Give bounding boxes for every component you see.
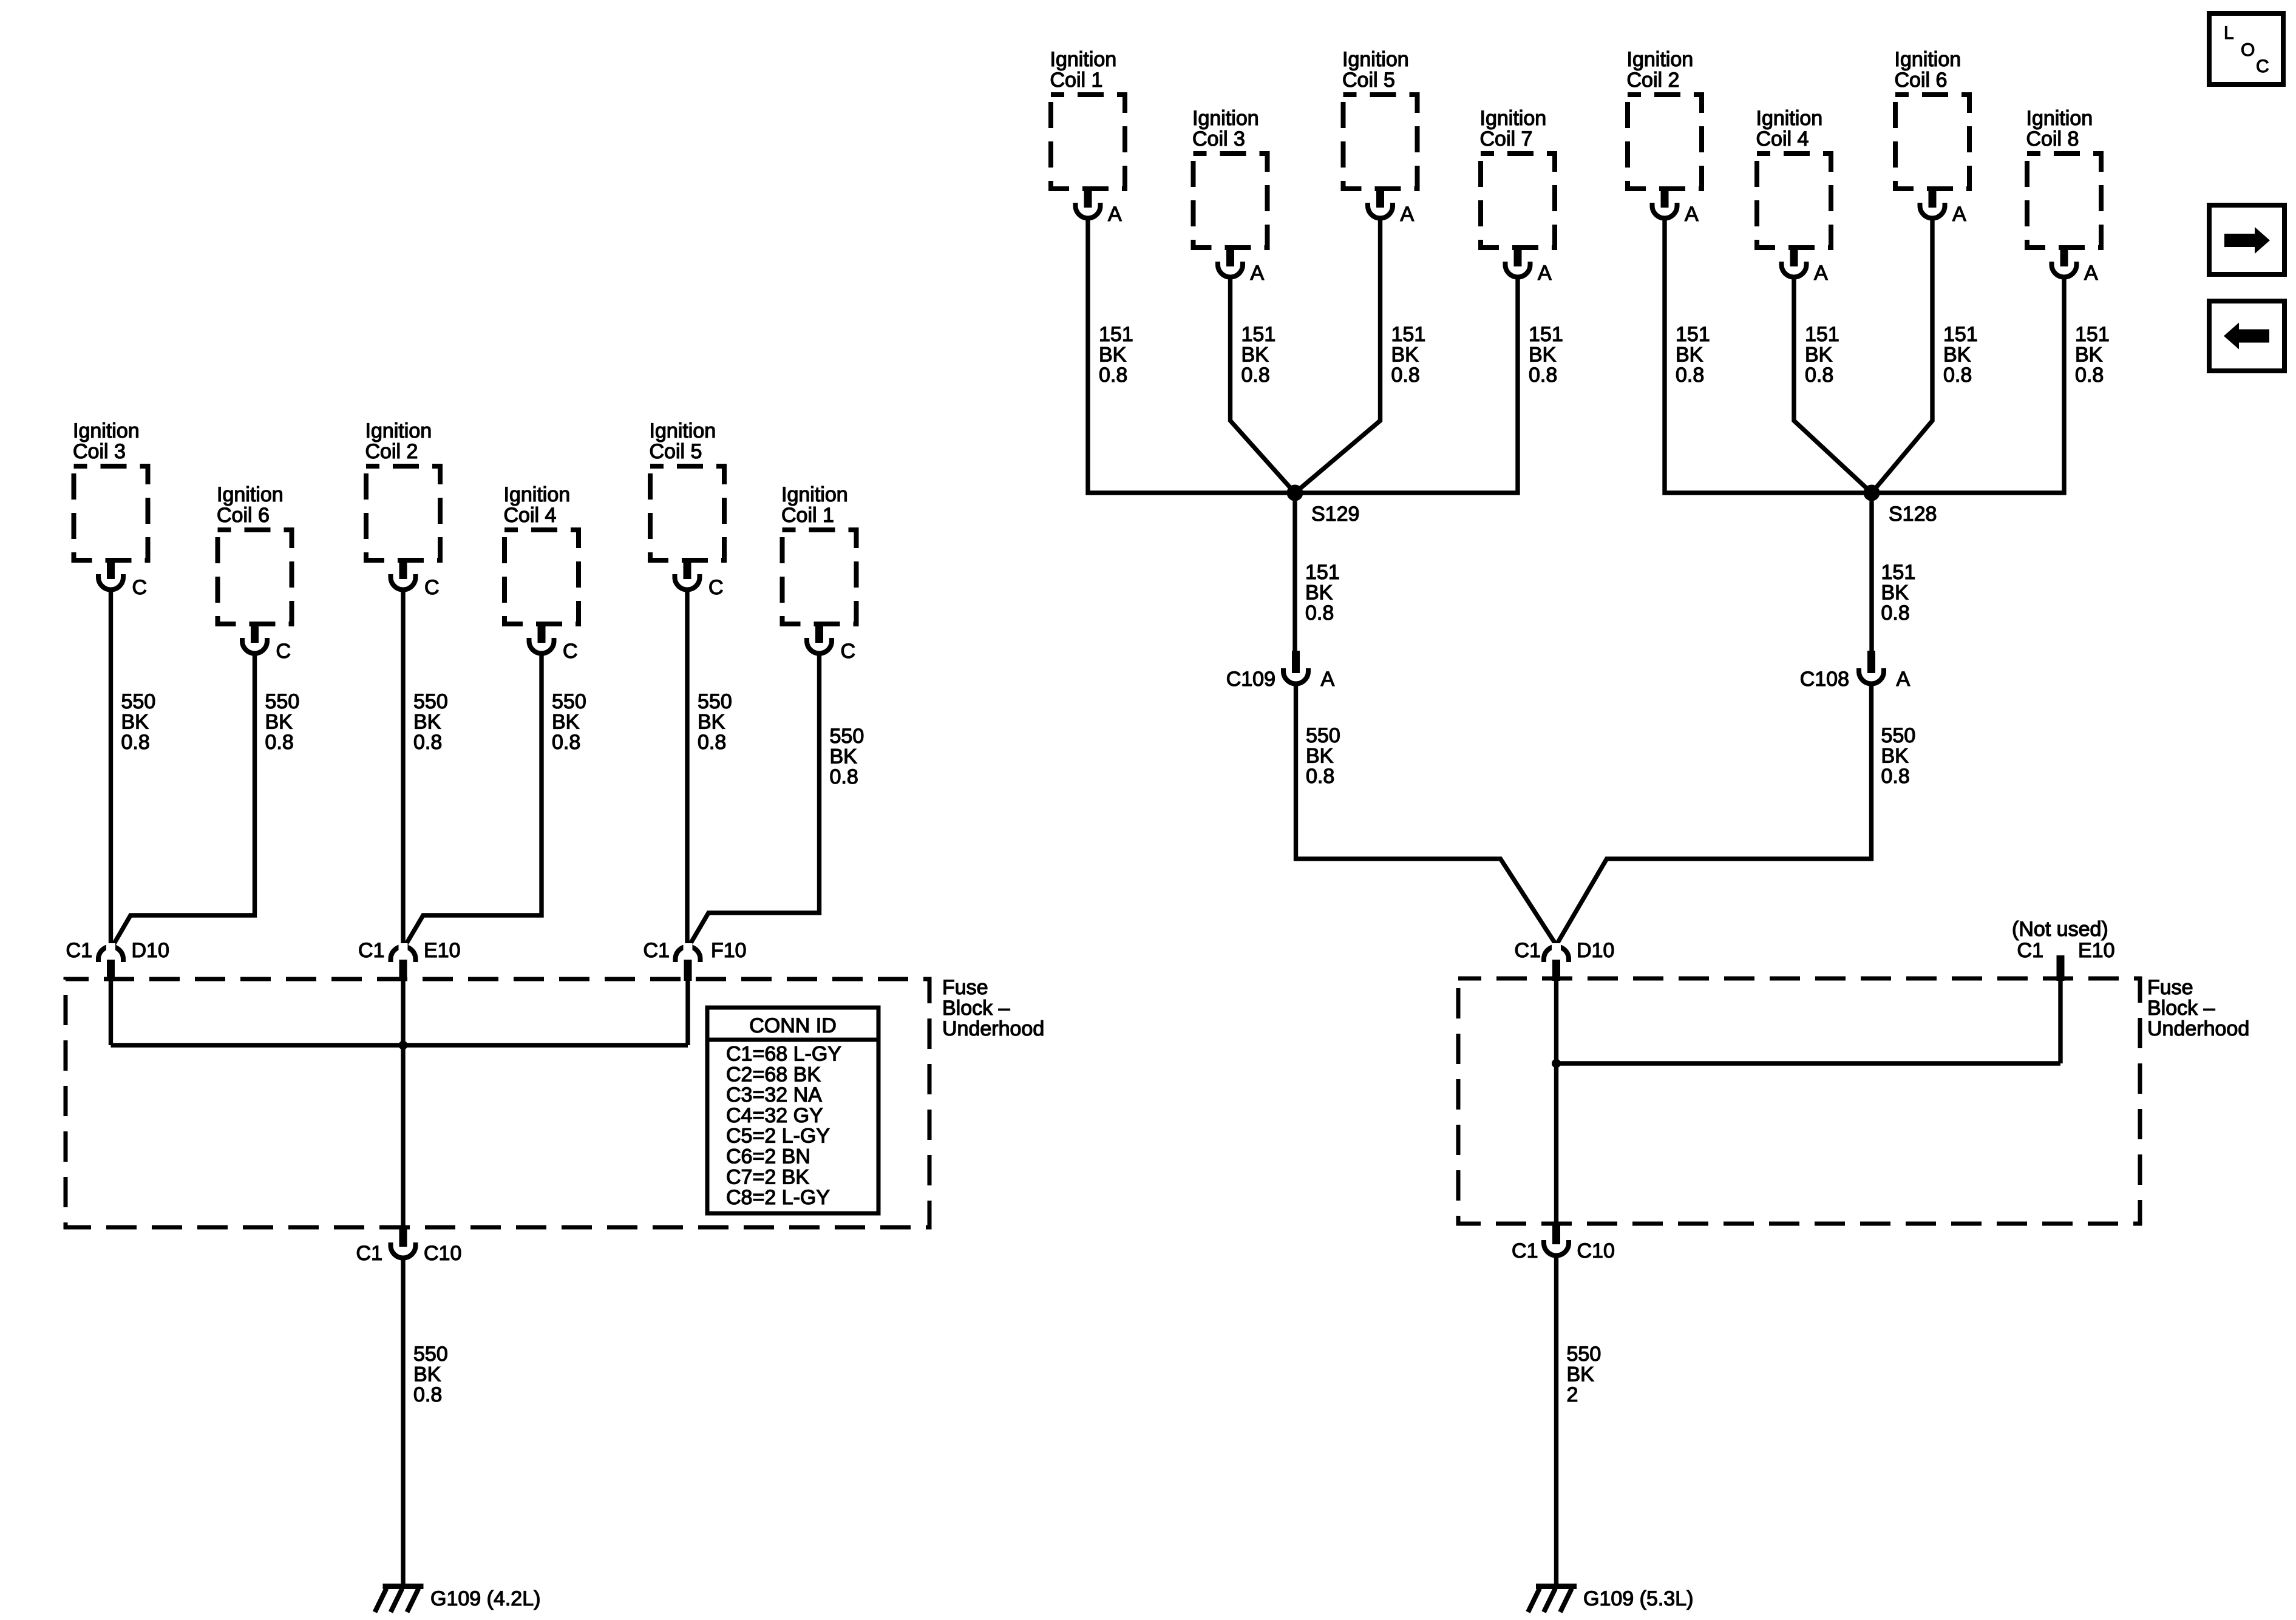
wire C10 to G109 (550 BK, 5.3L) [1554,1256,1558,1584]
svg-text:Ignition: Ignition [650,419,716,442]
ignition coil 3 (right 5.3L) [1194,154,1268,248]
svg-text:C: C [424,576,440,599]
svg-text:C1: C1 [2017,939,2043,962]
wire coil 2 to S128 (151 BK) [1665,219,1872,493]
svg-text:0.8: 0.8 [1881,602,1910,625]
svg-text:550: 550 [552,690,586,713]
connector terminal A of coil 3 (right) [1218,262,1243,277]
svg-text:A: A [1685,203,1699,226]
svg-text:F10: F10 [711,939,747,962]
internal bus wire (left fuse block) [111,1043,688,1047]
wire S128 to C108 (151 BK) [1869,501,1873,651]
fuse block - underhood (right 5.3L) [1458,978,2140,1224]
connector C1 pin F10 (left fuse block) [676,943,701,962]
pin F10 [684,960,692,981]
svg-text:151: 151 [1241,323,1276,346]
value label 151 BK 0.8 (coil 4 wire right) [1805,323,1839,387]
value label 550 BK 0.8 (coil 1 wire) [830,725,864,788]
connector terminal C of coil 2 [391,574,416,590]
pin coil 4 terminal A [1790,245,1798,266]
ignition coil 5 (left 4.2L) [650,466,724,560]
svg-text:550: 550 [413,690,448,713]
connector terminal A of coil 7 (right) [1506,262,1530,277]
svg-text:Underhood: Underhood [2147,1017,2249,1040]
pin coil 1 terminal A [1084,186,1092,208]
internal bus wire (right fuse block) [1557,1061,2061,1065]
svg-text:S129: S129 [1311,503,1359,526]
svg-text:Ignition: Ignition [365,419,432,442]
svg-text:0.8: 0.8 [1943,364,1972,387]
value label 550 BK 0.8 (coil 3 wire) [121,690,156,754]
wire coil 4 to E10 (550 BK) [406,654,542,946]
svg-text:550: 550 [830,725,864,748]
ignition coil 1 (left 4.2L) [783,530,857,624]
svg-text:C1: C1 [66,939,92,962]
pin C10 (right fuse block) [1552,1224,1560,1244]
ignition coil 4 (right 5.3L) [1757,154,1831,248]
svg-text:D10: D10 [1577,939,1614,962]
svg-text:Coil 7: Coil 7 [1480,127,1533,151]
label Ignition Coil 1 (left) [781,483,848,527]
svg-text:C3=32 NA: C3=32 NA [726,1083,822,1107]
wire D10 right down to C10 [1554,981,1558,1224]
wire coil 1 to F10 (550 BK) [690,654,820,945]
svg-text:G109 (4.2L): G109 (4.2L) [430,1587,540,1610]
svg-text:550: 550 [698,690,732,713]
svg-text:Coil 1: Coil 1 [1050,69,1103,92]
ignition coil 2 (right 5.3L) [1628,95,1702,189]
value label 151 BK 0.8 (S129-C109) [1305,561,1340,625]
svg-text:BK: BK [1567,1363,1595,1386]
value label 550 BK 2 (ground wire right) [1567,1343,1601,1406]
connector terminal C of coil 3 [98,574,123,590]
svg-text:Ignition: Ignition [1627,48,1694,71]
svg-text:0.8: 0.8 [698,731,726,754]
ignition coil 8 (right 5.3L) [2027,154,2101,248]
connector C1 pin D10 (left fuse block) [98,943,123,962]
LOC reference box [2209,13,2283,84]
svg-text:BK: BK [1391,344,1419,367]
svg-text:550: 550 [265,690,300,713]
pin A of C109 [1292,651,1300,673]
connector terminal A of coil 6 (right) [1920,203,1945,219]
svg-text:Block –: Block – [2147,997,2215,1020]
svg-text:BK: BK [413,711,441,734]
svg-text:BK: BK [552,711,580,734]
svg-text:Ignition: Ignition [1192,107,1259,130]
svg-text:A: A [1814,262,1828,285]
pin coil 5 terminal C [684,558,691,579]
svg-text:Coil 5: Coil 5 [650,440,702,463]
svg-text:BK: BK [1305,581,1333,605]
svg-text:Ignition: Ignition [1895,48,1961,71]
svg-text:Ignition: Ignition [504,483,571,506]
label Ignition Coil 5 (right) [1342,48,1409,92]
svg-text:BK: BK [830,745,858,768]
svg-text:Coil 4: Coil 4 [504,504,557,527]
wire S129 to C109 (151 BK) [1292,501,1297,651]
ignition coil 1 (right 5.3L) [1051,95,1125,189]
svg-text:Coil 4: Coil 4 [1756,127,1809,151]
label Ignition Coil 1 (right) [1050,48,1117,92]
wire coil 6 to S128 (151 BK) [1872,219,1932,493]
ignition coil 3 (left 4.2L) [74,466,148,560]
pin coil 6 terminal C [251,622,259,643]
svg-text:E10: E10 [424,939,461,962]
connector terminal C of coil 6 [242,638,267,653]
svg-text:0.8: 0.8 [552,731,580,754]
svg-text:Coil 5: Coil 5 [1342,69,1395,92]
label Ignition Coil 3 (right) [1192,107,1259,151]
svg-text:Underhood: Underhood [942,1017,1044,1040]
ignition coil 2 (left 4.2L) [366,466,440,560]
svg-text:Ignition: Ignition [1342,48,1409,71]
svg-text:BK: BK [265,711,293,734]
inline connector C108 [1859,668,1884,684]
value label 151 BK 0.8 (coil 2 wire right) [1676,323,1710,387]
svg-text:BK: BK [1306,745,1334,768]
svg-text:0.8: 0.8 [1305,602,1334,625]
connector C1 pin C10 (right) [1544,1240,1569,1256]
wire C109 to D10 right (550 BK) [1296,684,1557,946]
pin coil 3 terminal C [107,558,115,579]
ignition coil 6 (left 4.2L) [218,530,292,624]
svg-text:0.8: 0.8 [265,731,294,754]
connector terminal C of coil 1 [807,638,832,653]
pin D10 [107,960,115,981]
connector terminal A of coil 2 (right) [1652,203,1677,219]
label Fuse Block - Underhood (right) [2147,976,2249,1040]
pin E10 right (not used) [2057,955,2065,981]
ignition coil 6 (right 5.3L) [1895,95,1969,189]
value label 550 BK 0.8 (coil 6 wire) [265,690,300,754]
svg-text:Ignition: Ignition [217,483,284,506]
pin coil 8 terminal A [2060,245,2068,266]
wire coil 3 to S129 (151 BK) [1231,277,1296,493]
svg-text:C2=68 BK: C2=68 BK [726,1063,821,1086]
wire coil 3 to D10 (550 BK) [109,590,113,948]
svg-text:A: A [1538,262,1552,285]
label Ignition Coil 5 (left) [650,419,716,463]
pin coil 1 terminal C [815,622,823,643]
svg-text:C: C [708,576,724,599]
svg-text:A: A [1321,668,1335,691]
svg-text:0.8: 0.8 [1099,364,1127,387]
connector terminal A of coil 4 (right) [1782,262,1807,277]
label Ignition Coil 2 (left) [365,419,432,463]
wire C10 to G109 (550 BK, 4.2L) [401,1258,405,1584]
svg-text:BK: BK [2075,344,2103,367]
connector C1 pin C10 (left) [391,1242,416,1258]
svg-text:151: 151 [2075,323,2110,346]
back arrow box [2209,301,2284,371]
svg-text:A: A [1251,262,1265,285]
value label 550 BK 0.8 (ground wire left) [413,1343,448,1406]
label Fuse Block - Underhood (left) [942,976,1044,1040]
wire coil 5 to S129 (151 BK) [1295,219,1381,493]
svg-text:151: 151 [1099,323,1133,346]
label Ignition Coil 4 (left) [504,483,571,527]
connector terminal A of coil 8 (right) [2052,262,2077,277]
svg-text:A: A [2084,262,2098,285]
svg-text:C109: C109 [1226,668,1275,691]
svg-text:0.8: 0.8 [2075,364,2104,387]
svg-text:BK: BK [698,711,725,734]
label Ignition Coil 4 (right) [1756,107,1823,151]
svg-text:C7=2 BK: C7=2 BK [726,1165,809,1188]
label Ignition Coil 6 (left) [217,483,284,527]
pin coil 4 terminal C [538,622,546,643]
svg-text:0.8: 0.8 [413,731,442,754]
svg-text:C1: C1 [1515,939,1541,962]
svg-text:C: C [132,576,148,599]
svg-text:CONN ID: CONN ID [749,1014,837,1037]
pin A of C108 [1867,651,1875,673]
svg-text:A: A [1108,203,1122,226]
label Ignition Coil 7 (right) [1480,107,1547,151]
svg-text:BK: BK [413,1363,441,1386]
pin E10 [399,960,407,981]
svg-text:0.8: 0.8 [1676,364,1704,387]
svg-text:Fuse: Fuse [2147,976,2193,999]
value label 151 BK 0.8 (coil 6 wire right) [1943,323,1978,387]
pin coil 7 terminal A [1514,245,1522,266]
value label 550 BK 0.8 (C109-D10) [1306,724,1340,788]
svg-text:Coil 1: Coil 1 [781,504,834,527]
wire coil 2 to E10 (550 BK) [401,590,405,948]
pin D10 right [1552,960,1560,981]
svg-text:Coil 3: Coil 3 [1192,127,1245,151]
svg-text:Coil 3: Coil 3 [73,440,126,463]
connector terminal C of coil 4 [529,638,554,653]
connector terminal C of coil 5 [675,574,700,590]
svg-text:Ignition: Ignition [781,483,848,506]
svg-text:BK: BK [1805,344,1833,367]
svg-text:C4=32 GY: C4=32 GY [726,1104,823,1127]
svg-text:0.8: 0.8 [413,1383,442,1406]
value label 151 BK 0.8 (coil 5 wire right) [1391,323,1426,387]
value label 550 BK 0.8 (coil 2 wire) [413,690,448,754]
value label 151 BK 0.8 (coil 7 wire right) [1529,323,1563,387]
junction node (right fuse block bus) [1552,1059,1561,1068]
value label 151 BK 0.8 (coil 8 wire right) [2075,323,2110,387]
wire E10 down to C10 [401,981,405,1226]
svg-text:0.8: 0.8 [1241,364,1270,387]
svg-text:151: 151 [1529,323,1563,346]
svg-text:151: 151 [1676,323,1710,346]
svg-text:(Not used): (Not used) [2012,918,2108,941]
ignition coil 5 (right 5.3L) [1343,95,1418,189]
svg-text:E10: E10 [2078,939,2115,962]
svg-text:Fuse: Fuse [942,976,988,999]
svg-text:C6=2 BN: C6=2 BN [726,1145,810,1168]
connector C1 pin E10 (left fuse block) [391,943,416,962]
svg-text:550: 550 [413,1343,448,1366]
svg-text:151: 151 [1881,561,1916,584]
connector terminal A of coil 1 (right) [1076,203,1101,218]
svg-text:C1: C1 [1512,1239,1538,1262]
svg-text:Ignition: Ignition [1050,48,1117,71]
svg-text:Coil 2: Coil 2 [1627,69,1680,92]
svg-text:A: A [1401,203,1415,226]
svg-text:151: 151 [1943,323,1978,346]
pin coil 5 terminal A [1376,186,1384,208]
svg-text:Coil 8: Coil 8 [2026,127,2079,151]
svg-text:C1: C1 [356,1242,382,1265]
svg-text:L: L [2224,23,2234,43]
svg-text:0.8: 0.8 [830,765,858,788]
svg-text:C8=2 L-GY: C8=2 L-GY [726,1186,830,1209]
svg-text:BK: BK [1881,581,1909,605]
CONN ID table [707,1008,878,1213]
svg-text:G109 (5.3L): G109 (5.3L) [1583,1587,1693,1610]
splice S128 [1864,485,1880,501]
forward arrow box [2209,205,2284,274]
pin coil 6 terminal A [1929,186,1937,208]
label Ignition Coil 3 (left) [73,419,140,463]
value label 550 BK 0.8 (coil 5 wire) [698,690,732,754]
value label 550 BK 0.8 (C108-D10) [1881,724,1916,788]
splice S129 [1287,485,1303,501]
wire coil 6 to D10 (550 BK) [114,654,255,946]
svg-text:C: C [276,640,291,663]
connector terminal A of coil 5 (right) [1368,203,1393,219]
svg-text:A: A [1897,668,1911,691]
ground G109 (5.3L) [1528,1587,1577,1613]
value label 151 BK 0.8 (coil 3 wire right) [1241,323,1276,387]
svg-text:BK: BK [1241,344,1269,367]
fuse block - underhood (left 4.2L) [66,979,929,1227]
svg-text:Ignition: Ignition [1756,107,1823,130]
svg-text:0.8: 0.8 [1805,364,1833,387]
junction node (left fuse block bus) [399,1041,408,1050]
pin coil 3 terminal A [1226,245,1234,266]
svg-text:BK: BK [1529,344,1557,367]
wire F10 to internal bus [685,981,690,1045]
svg-text:C1=68 L-GY: C1=68 L-GY [726,1043,841,1066]
svg-text:0.8: 0.8 [1306,765,1334,788]
svg-text:Coil 6: Coil 6 [217,504,270,527]
svg-text:151: 151 [1805,323,1839,346]
pin coil 2 terminal C [399,558,407,579]
label Ignition Coil 6 (right) [1895,48,1961,92]
svg-text:C: C [2256,56,2269,76]
connector C1 pin D10 (right fuse block) [1544,943,1569,962]
value label 151 BK 0.8 (S128-C108) [1881,561,1916,625]
svg-text:151: 151 [1305,561,1340,584]
svg-text:0.8: 0.8 [1391,364,1420,387]
svg-text:Coil 2: Coil 2 [365,440,418,463]
svg-text:550: 550 [1881,724,1916,747]
svg-text:C: C [841,640,856,663]
svg-text:Ignition: Ignition [73,419,140,442]
value label 151 BK 0.8 (coil 1 wire right) [1099,323,1133,387]
svg-text:C1: C1 [644,939,670,962]
svg-text:BK: BK [121,711,149,734]
wire E10 right to bus [2058,981,2062,1063]
svg-text:C10: C10 [1577,1239,1615,1262]
wire coil 5 to F10 (550 BK) [685,590,689,948]
svg-text:BK: BK [1943,344,1971,367]
svg-text:S128: S128 [1889,503,1937,526]
svg-text:2: 2 [1567,1383,1578,1406]
svg-text:C10: C10 [424,1242,461,1265]
svg-text:C5=2 L-GY: C5=2 L-GY [726,1125,830,1148]
ground G109 (4.2L) [375,1587,424,1613]
svg-text:151: 151 [1391,323,1426,346]
wire D10 to internal bus [109,981,113,1045]
svg-text:550: 550 [1306,724,1340,747]
svg-text:Block –: Block – [942,997,1010,1020]
wire C108 to D10 right (550 BK) [1557,684,1872,946]
svg-text:Coil 6: Coil 6 [1895,69,1948,92]
svg-text:0.8: 0.8 [121,731,150,754]
pin C10 (left fuse block) [399,1226,407,1247]
svg-text:O: O [2241,40,2255,60]
wire coil 7 to S129 (151 BK) [1295,277,1518,493]
svg-text:550: 550 [121,690,156,713]
wire coil 8 to S128 (151 BK) [1872,277,2064,493]
svg-text:D10: D10 [132,939,169,962]
label Ignition Coil 8 (right) [2026,107,2093,151]
label Ignition Coil 2 (right) [1627,48,1694,92]
ignition coil 7 (right 5.3L) [1481,154,1555,248]
svg-text:Ignition: Ignition [2026,107,2093,130]
value label 550 BK 0.8 (coil 4 wire) [552,690,586,754]
svg-text:550: 550 [1567,1343,1601,1366]
svg-text:BK: BK [1099,344,1127,367]
svg-text:C: C [563,640,578,663]
wire coil 1 to S129 (151 BK) [1088,219,1295,493]
pin coil 2 terminal A [1661,186,1669,208]
svg-text:0.8: 0.8 [1881,765,1910,788]
svg-text:A: A [1952,203,1966,226]
wire coil 4 to S128 (151 BK) [1794,277,1872,493]
svg-text:BK: BK [1881,745,1909,768]
svg-text:C108: C108 [1800,668,1849,691]
svg-text:C1: C1 [358,939,384,962]
svg-text:Ignition: Ignition [1480,107,1547,130]
inline connector C109 [1283,668,1308,684]
ignition coil 4 (left 4.2L) [504,530,579,624]
svg-text:BK: BK [1676,344,1703,367]
svg-text:0.8: 0.8 [1529,364,1557,387]
